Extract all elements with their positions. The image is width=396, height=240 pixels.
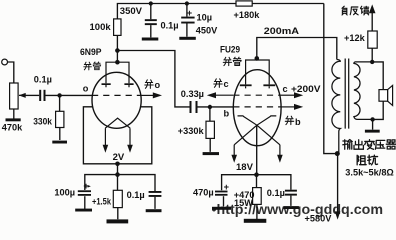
svg-text:0.1µ: 0.1µ	[161, 20, 179, 30]
ground: 10u cap	[179, 37, 196, 40]
node: b grid node	[208, 105, 212, 109]
tube FU29 envelope	[233, 70, 281, 146]
node: secondary top	[370, 60, 374, 64]
capacitor 0.33u coupling	[190, 101, 192, 113]
6N9P grid dashed line	[92, 94, 141, 96]
wire: secondary top to speaker	[372, 62, 383, 90]
wire: cap to grid node to tube	[46, 94, 93, 96]
svg-text:+: +	[224, 182, 229, 192]
wire: 1.5k column	[117, 175, 119, 220]
wire: grid node down to 330k	[59, 95, 61, 111]
resistor 470 15W	[253, 188, 262, 205]
FU29 cathode structure	[234, 116, 280, 157]
svg-text:350V: 350V	[120, 6, 143, 17]
svg-text:0.33µ: 0.33µ	[181, 89, 204, 99]
wire: 470u to ground	[223, 196, 225, 206]
ground: 330k input	[52, 141, 67, 144]
node: 2V upper	[115, 162, 120, 167]
wire: 2V node stem	[117, 164, 119, 175]
+580V arrow down	[335, 211, 341, 219]
svg-text:100µ: 100µ	[54, 187, 75, 197]
ground: 470 15W resistor	[244, 219, 266, 223]
node: rail-0.1u	[149, 1, 153, 5]
wire: 100k top	[116, 35, 118, 62]
capacitor 100u electrolytic	[78, 190, 91, 192]
node: FU29 plate bracket	[254, 56, 259, 61]
svg-text:6N9P: 6N9P	[80, 47, 102, 58]
label: zu-kang (impedance)	[357, 155, 366, 165]
ground: 470u cap	[212, 207, 231, 210]
ground: 0.1u top	[142, 38, 159, 41]
node junction dots	[57, 1, 374, 177]
label bing-guan 6N9P	[84, 62, 92, 70]
node: input grid node	[57, 93, 61, 97]
svg-text:10µ: 10µ	[197, 13, 213, 23]
ground: 330k grid resistor	[203, 152, 219, 155]
svg-text:•http://www.go-gddq.com: •http://www.go-gddq.com	[212, 202, 384, 218]
svg-text:450V: 450V	[196, 26, 218, 36]
wire: FU29 cathode RC row	[222, 175, 291, 191]
capacitor 0.1u 6N9P cathode	[149, 191, 162, 193]
node: 6N9P anode junction	[115, 48, 120, 53]
resistor 12k feedback	[368, 31, 377, 48]
wire: 6N9P cathode RC row	[85, 175, 155, 191]
wire: 12k column: arrow shaft and stem to secondary	[371, 13, 373, 62]
feedback arrow up	[369, 4, 376, 13]
ground: pot	[6, 118, 21, 121]
ground: 0.1u FU29 cathode cap	[283, 206, 299, 209]
svg-text:0.1µ: 0.1µ	[267, 188, 285, 198]
svg-text:+12k: +12k	[344, 33, 366, 43]
svg-text:0.1µ: 0.1µ	[34, 75, 52, 85]
wire: transformer bottom to +580V	[337, 154, 339, 212]
plate bars	[102, 83, 111, 85]
capacitor 470u electrolytic	[215, 191, 228, 193]
svg-text:200mA: 200mA	[264, 26, 299, 37]
transformer secondary winding	[354, 62, 373, 120]
svg-text:b: b	[295, 117, 301, 127]
wire: speaker bottom to secondary ground node	[373, 101, 384, 119]
tube 6N9P envelope	[92, 72, 141, 128]
resistor 330k FU29 grid	[206, 121, 214, 138]
svg-text:o: o	[83, 84, 89, 94]
svg-text:b: b	[224, 109, 230, 119]
label fu-fan-kui (negative feedback)	[342, 6, 347, 15]
wire: 0.33u to grid node b	[197, 106, 233, 108]
input jack J1	[2, 59, 8, 65]
wire: 470/15W column	[256, 175, 258, 219]
svg-text:+1.5k: +1.5k	[92, 197, 112, 207]
node: 2V lower	[115, 172, 120, 177]
node: transformer bottom	[335, 151, 340, 156]
svg-text:FU29: FU29	[220, 44, 240, 55]
svg-text:330k: 330k	[33, 116, 53, 126]
node: rail-10u	[185, 1, 189, 5]
svg-text:+180k: +180k	[234, 10, 261, 20]
transformer core	[345, 59, 349, 129]
capacitor 0.1u input	[39, 90, 41, 101]
wire: right HT vertical from 180k down to transformer bottom	[324, 4, 338, 154]
wire: 100u to ground	[84, 196, 86, 210]
node: secondary bottom	[370, 117, 374, 121]
wire: 0.1u fu29 to ground	[290, 196, 292, 206]
capacitor 0.1u decoupling top	[145, 19, 157, 21]
svg-text:+: +	[187, 8, 192, 18]
resistor 180k horizontal	[236, 1, 252, 6]
FU29 screen grid dashed line with arrows	[233, 94, 281, 96]
FU29 control grid dashed line with arrow	[233, 106, 281, 108]
wire: anode node to 0.33u	[117, 51, 189, 107]
6N9P plate bracket and plates	[106, 62, 129, 87]
ground: 1.5k	[107, 219, 129, 223]
svg-text:18V: 18V	[236, 162, 254, 173]
wire: input jack to pot	[7, 62, 13, 83]
svg-text:+330k: +330k	[178, 126, 205, 136]
transformer T1 primary winding	[332, 60, 340, 154]
wire: 6N9P cathode loop rectangle	[83, 107, 151, 164]
wire: 330k-2 stem	[209, 107, 211, 152]
wire: 10u cap stems	[186, 4, 188, 37]
wire: FU29 cathode to 18V node	[256, 125, 258, 175]
6N9P cathode V and arrows	[105, 118, 130, 146]
wire: FU29 plate to 200mA line to transformer primary	[257, 38, 337, 60]
svg-text:o: o	[155, 80, 161, 90]
label bing-b	[285, 116, 293, 124]
resistor 100k	[114, 19, 121, 36]
label bing-guan FU29	[223, 57, 231, 65]
wire: secondary ground stem	[372, 119, 374, 129]
wire: 0.1u cat to ground	[154, 197, 156, 209]
svg-text:+200V: +200V	[291, 84, 321, 94]
resistor 1.5k	[113, 190, 122, 207]
svg-text:100k: 100k	[90, 22, 112, 33]
svg-text:470µ: 470µ	[193, 187, 214, 197]
svg-text:3.5k~5k/8Ω: 3.5k~5k/8Ω	[345, 168, 394, 178]
FU29 plate bracket and plates	[246, 60, 270, 88]
potentiometer 470k	[10, 83, 19, 109]
wire: pot to ground	[13, 109, 15, 119]
resistor 330k input	[56, 111, 64, 127]
wire: top 0.1u cap stems	[150, 4, 152, 38]
node: 18V node	[254, 172, 259, 177]
label bing-o	[145, 80, 153, 88]
capacitor 10u 450V electrolytic	[181, 17, 194, 19]
wire: top supply rail 350V	[117, 4, 323, 19]
svg-text:c: c	[283, 84, 288, 94]
label bing-c	[214, 79, 222, 87]
svg-text:c: c	[224, 79, 229, 89]
ground: 0.1u cathode cap	[146, 209, 162, 212]
label: output transformer (shu-chu-bian-ya-qi)	[343, 140, 352, 150]
svg-text:470k: 470k	[2, 123, 23, 133]
ground: 100u cap	[75, 209, 92, 212]
svg-text:2V: 2V	[113, 152, 125, 163]
wire: pot wiper to 0.1u cap	[25, 94, 40, 96]
wire: 330k to ground	[59, 128, 61, 141]
node: 6N9P plate bracket	[115, 60, 120, 65]
capacitor 0.1u FU29 cathode	[285, 190, 297, 192]
ground: secondary	[365, 130, 380, 133]
svg-text:0.1µ: 0.1µ	[127, 190, 145, 200]
speaker SP	[379, 90, 388, 102]
